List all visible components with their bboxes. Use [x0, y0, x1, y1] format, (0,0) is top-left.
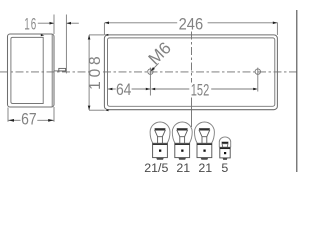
glass — [150, 122, 170, 143]
side view lens double line — [51, 34, 53, 106]
svg-text:16: 16 — [24, 15, 37, 33]
bulb 1 (21/5 W) — [150, 122, 170, 160]
base pin dot — [159, 150, 161, 152]
stud 1 circle — [148, 69, 153, 74]
dim 108 arrow down — [88, 106, 91, 111]
filament cap — [177, 128, 188, 130]
stud 1 tick line — [149, 68, 151, 96]
svg-text:108: 108 — [87, 53, 104, 90]
base — [220, 147, 230, 158]
dark tick on side view top edge — [41, 34, 45, 36]
dim 16 extension line right / stud end — [65, 15, 67, 74]
filament cup — [177, 130, 188, 137]
svg-text:246: 246 — [179, 16, 204, 34]
dim 108 line — [88, 35, 90, 110]
svg-text:152: 152 — [191, 81, 210, 99]
dim 246 extension left — [103, 23, 105, 35]
dim 246 arrow right — [273, 22, 278, 25]
svg-text:21/5: 21/5 — [144, 161, 168, 175]
bulb 2 (21 W) — [172, 122, 192, 160]
dim 67 arrow right — [48, 119, 54, 122]
glass — [172, 122, 192, 143]
side view inner lens outline — [11, 37, 43, 103]
svg-text:67: 67 — [21, 111, 37, 129]
horizontal centerline — [0, 71, 297, 73]
dim 64 line — [108, 88, 116, 90]
filament cap — [222, 142, 229, 144]
svg-text:21: 21 — [198, 161, 212, 175]
bottom contact — [156, 158, 164, 160]
base pin dot — [224, 152, 226, 154]
svg-text:5: 5 — [221, 161, 228, 175]
dim 16 extension line left — [53, 15, 55, 35]
dim 246 extension right — [276, 22, 278, 35]
glass — [195, 122, 215, 143]
dim 67 arrow left — [8, 119, 14, 122]
stud 2 circle — [255, 69, 260, 74]
dim 67 extension lines — [7, 108, 9, 122]
bottom contact — [223, 158, 228, 160]
svg-text:21: 21 — [176, 161, 190, 175]
filament cup — [155, 130, 166, 137]
stud nut bump — [59, 68, 66, 71]
dim 152 line — [155, 88, 189, 90]
base pin dot — [181, 150, 183, 152]
filament cap — [199, 128, 210, 130]
base — [153, 143, 168, 157]
bulb 3 (21 W) — [195, 122, 215, 160]
stem — [179, 137, 181, 144]
base flange — [220, 147, 230, 149]
bottom contact — [178, 158, 186, 160]
frame border line right — [296, 10, 298, 172]
base — [175, 143, 190, 157]
dim 16 arrow right — [50, 22, 55, 25]
vertical centerline of front view — [191, 32, 193, 128]
svg-text:64: 64 — [116, 81, 132, 99]
side view outer body — [8, 34, 55, 107]
dark tick at front top-left corner — [105, 34, 109, 36]
base flange — [153, 143, 168, 145]
dim 64 arrow right — [146, 88, 151, 91]
base flange — [175, 143, 190, 145]
base flange — [197, 143, 212, 145]
dim 67 line — [8, 119, 20, 121]
stud 2 tick line — [257, 68, 259, 92]
base — [197, 143, 212, 157]
dim 246 arrow left — [105, 22, 110, 25]
dim 108 bottom extension — [89, 109, 105, 111]
dim 152 arrow right — [253, 88, 258, 91]
dark tick at front bottom-left corner — [105, 109, 109, 111]
mounting stud side view — [54, 70, 66, 72]
M6 leader line — [151, 63, 158, 70]
front view outer body — [104, 35, 277, 110]
dim 108 arrow up — [88, 35, 91, 40]
front view inner lens — [108, 38, 275, 106]
M6 leader arrowhead — [151, 67, 155, 71]
filament cap — [155, 128, 166, 130]
base pin dot — [203, 150, 205, 152]
dim 246 line — [105, 22, 178, 24]
bottom contact — [201, 158, 209, 160]
stem — [157, 137, 159, 144]
stem — [201, 137, 203, 144]
filament cup — [222, 144, 228, 148]
dim 108 top extension — [89, 34, 104, 36]
filament cup — [199, 130, 210, 137]
dim 16 line — [38, 22, 54, 24]
dim 152 arrow left — [151, 88, 156, 91]
glass dome — [219, 137, 230, 147]
dim 16 arrow left — [67, 22, 72, 25]
bulb 4 (5 W small) — [219, 137, 230, 160]
dim 64 arrow left — [108, 88, 113, 91]
